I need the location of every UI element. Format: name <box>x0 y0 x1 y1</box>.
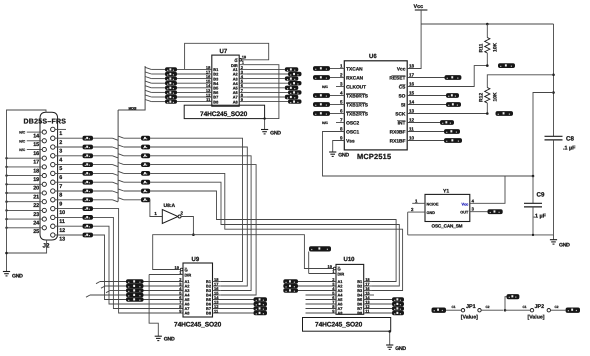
net label SI <box>446 102 461 107</box>
wire U10 B3 stub <box>364 290 372 292</box>
net label U9 A4 <box>126 293 144 298</box>
IC U6 body <box>344 61 407 150</box>
svg-text:[Value]: [Value] <box>528 315 545 321</box>
wire U6 pin 1 <box>330 68 344 70</box>
J2 pin 18 <box>42 165 46 169</box>
wire C9 branch <box>533 93 554 177</box>
svg-text:SI: SI <box>401 103 406 109</box>
wire JP junction riser <box>505 297 507 311</box>
wire J2 pin 7 net <box>55 181 83 183</box>
svg-text:15: 15 <box>409 91 415 96</box>
svg-text:Vcc: Vcc <box>397 67 406 73</box>
svg-text:4: 4 <box>59 157 62 163</box>
net label U7 A5 <box>285 86 299 90</box>
svg-text:GND: GND <box>427 211 436 215</box>
net label U7 A2 <box>288 72 302 76</box>
net label RESET r11 <box>498 63 515 68</box>
net label row 6 b <box>141 171 150 176</box>
wire U7 B5 row <box>145 86 151 88</box>
wire RX1BF pin10 <box>407 140 444 142</box>
svg-text:1: 1 <box>415 198 418 203</box>
net label U10 A3 <box>283 288 298 293</box>
wire U7 A5 row <box>239 87 247 89</box>
wire SI pin14 <box>407 104 446 106</box>
wire row11 down to U9 area <box>93 217 183 308</box>
net label row 9 <box>83 197 94 202</box>
svg-text:10K: 10K <box>493 92 499 102</box>
net label U10 B8 <box>392 311 404 316</box>
net label SO <box>446 93 459 98</box>
J2 pin 6 <box>51 171 55 175</box>
svg-text:TXB2RTS: TXB2RTS <box>346 112 369 118</box>
J2 pin 4 <box>51 154 55 158</box>
net label row 4 b <box>141 153 150 158</box>
wire J2 pin 13 net <box>55 234 83 236</box>
J2 pin 17 <box>42 156 46 160</box>
node Vcc R11 <box>486 23 489 26</box>
net label SCK r12 <box>496 111 514 116</box>
net label U7 A6 <box>288 90 302 94</box>
svg-text:14: 14 <box>33 134 39 140</box>
svg-text:2: 2 <box>411 207 414 212</box>
wire U7 DIR loop <box>239 65 279 119</box>
wire U7 B6 row <box>145 90 151 92</box>
svg-text:15: 15 <box>33 142 39 148</box>
wire U7 box to GND <box>264 119 266 130</box>
net label U6 pin 1 <box>313 66 330 71</box>
net label U6 pin 5 <box>313 102 330 107</box>
wire J2 pin 18 to ground bus <box>7 166 43 168</box>
node JP junction <box>504 309 507 312</box>
wire U10 B5 to net label <box>364 299 392 301</box>
svg-text:18: 18 <box>33 168 39 174</box>
wire row4 down to U9 B <box>150 156 251 291</box>
svg-text:OSC_CAN_SM: OSC_CAN_SM <box>432 223 463 228</box>
net label U7 B7 <box>165 95 177 99</box>
svg-text:2: 2 <box>181 211 184 216</box>
net label row 13 <box>83 233 94 238</box>
svg-text:10: 10 <box>59 210 65 216</box>
wire U7 A3 row <box>239 78 247 80</box>
wire U6 pin 5 <box>330 104 344 106</box>
svg-text:TXB0RTS: TXB0RTS <box>346 94 369 100</box>
net label row 6 <box>83 171 94 176</box>
wire J2 pin 10 net <box>55 208 83 210</box>
net label U9 A5 <box>126 297 144 302</box>
wire U6 pin 3 stub <box>336 86 344 88</box>
svg-text:10: 10 <box>409 136 415 141</box>
svg-text:2: 2 <box>59 140 62 146</box>
wire U10 B4 stub <box>364 294 374 296</box>
wire J2 pin 1 net <box>55 128 66 130</box>
wire U10 B8 to net label <box>364 312 392 314</box>
svg-text:N/C: N/C <box>19 148 25 152</box>
svg-text:A8: A8 <box>338 311 344 316</box>
svg-text:21: 21 <box>33 194 39 200</box>
svg-text:RX0BF: RX0BF <box>390 130 406 136</box>
wire OSC1 net <box>323 132 534 177</box>
JP2 pin 1 <box>530 309 533 312</box>
net label Y1 OUT <box>488 209 503 214</box>
wire row12 down to U9 area <box>93 226 183 304</box>
U7 type label box <box>184 105 264 118</box>
wire J2 pin 3 net <box>55 146 83 148</box>
net label U9 B6 <box>254 302 268 307</box>
svg-text:N/C: N/C <box>19 131 25 135</box>
wire U6 pin 7 stub <box>336 122 344 124</box>
net label row 3 b <box>141 145 150 150</box>
ground U10 <box>386 344 393 346</box>
wire U10 A6 <box>306 303 337 305</box>
wire U9 B2 stub <box>213 285 221 287</box>
svg-text:Vcc: Vcc <box>462 202 469 206</box>
svg-text:4: 4 <box>340 91 343 96</box>
wire J2 pin 23 to ground bus <box>7 209 43 211</box>
net label row 8 <box>83 189 94 194</box>
net label U7 B5 <box>165 86 177 90</box>
svg-text:13: 13 <box>409 109 415 114</box>
wire row5 via bus to U9 <box>93 164 113 166</box>
node OSC1 C9 junction <box>532 175 535 178</box>
net label U9 A2 <box>126 284 144 289</box>
wire row13 down to U9 area <box>93 235 126 300</box>
net label U9 B7 <box>254 306 268 311</box>
svg-text:R11: R11 <box>479 43 485 52</box>
svg-text:.1 µF: .1 µF <box>563 146 576 152</box>
wire U10 box to GND <box>389 331 391 345</box>
net label U7 B8 <box>165 99 177 103</box>
net label U9 A3 <box>126 288 144 293</box>
svg-text:TXB1RTS: TXB1RTS <box>346 103 369 109</box>
node C9 branch tap <box>552 91 555 94</box>
svg-text:8: 8 <box>59 193 62 199</box>
J2 pin 10 <box>51 206 55 210</box>
svg-text:1: 1 <box>242 60 245 65</box>
svg-text:JP2: JP2 <box>535 304 545 310</box>
svg-text:9: 9 <box>59 201 62 207</box>
svg-text:23: 23 <box>33 212 39 218</box>
wire U9 DIR <box>149 274 183 276</box>
svg-text:16: 16 <box>409 82 415 87</box>
U8A output bubble <box>178 215 181 218</box>
svg-text:DIR: DIR <box>185 273 192 278</box>
IC U7 body <box>212 55 239 106</box>
wire J2 pin 25 to ground bus <box>7 227 43 229</box>
wire U6 pin 4 <box>330 95 344 97</box>
net label RESET <box>445 75 462 80</box>
svg-text:RESET: RESET <box>389 76 405 82</box>
svg-text:16: 16 <box>33 151 39 157</box>
svg-text:19: 19 <box>33 177 39 183</box>
wire row10 down to U9 area <box>93 209 183 313</box>
svg-text:DIR: DIR <box>338 272 345 277</box>
net label row 3 <box>83 145 94 150</box>
svg-text:B8: B8 <box>213 99 219 104</box>
svg-text:12: 12 <box>59 228 65 234</box>
wire U9 B6 to net label <box>213 303 254 305</box>
net label JP1 left <box>432 308 447 313</box>
node R12 tap <box>552 74 555 77</box>
svg-text:22: 22 <box>33 203 39 209</box>
wire U6 pin 6 <box>330 113 344 115</box>
JP1 pin 1 <box>461 309 464 312</box>
wire J2 pin 20 to ground bus <box>7 183 43 185</box>
net label JP mid <box>507 294 520 299</box>
svg-text:14: 14 <box>409 100 415 105</box>
node bus gnd junction <box>5 252 8 255</box>
wire Y1 Vcc to rail <box>470 176 505 203</box>
svg-text:.1 µF: .1 µF <box>534 214 547 220</box>
node C9 gnd <box>532 234 534 236</box>
net label U7 B6 <box>165 90 177 94</box>
svg-text:RXCAN: RXCAN <box>346 76 364 82</box>
J2 pin 20 <box>42 182 46 186</box>
J2 pin 1 <box>51 127 55 131</box>
wire U7 B1 row <box>145 67 151 69</box>
J2 pin 9 <box>51 198 55 202</box>
resistor R12 10K <box>485 88 490 104</box>
svg-text:MCP2515: MCP2515 <box>357 152 391 161</box>
wire row3 down to U9 B <box>150 147 247 286</box>
wire U10 A4 <box>306 294 337 296</box>
wire SO pin15 <box>407 95 446 97</box>
J2 pin 2 <box>51 136 55 140</box>
svg-text:SCK: SCK <box>395 112 406 118</box>
J2 pin 22 <box>42 200 46 204</box>
wire row8 via bus to U10 <box>93 190 113 192</box>
wire row4 via bus to U9 <box>93 155 113 157</box>
net label U10 DIR <box>309 246 331 251</box>
svg-text:C9: C9 <box>537 192 545 199</box>
wire U8A output <box>181 217 193 235</box>
svg-text:U8:A: U8:A <box>164 203 176 209</box>
net label row 8 b <box>141 189 150 194</box>
svg-text:N/C: N/C <box>322 121 328 125</box>
svg-text:CS: CS <box>399 85 406 91</box>
net label U7 A1 <box>285 67 299 71</box>
svg-text:SO: SO <box>398 94 405 100</box>
net label U6 pin 6 <box>313 111 330 116</box>
J2 pin 19 <box>42 174 46 178</box>
svg-text:4: 4 <box>472 198 475 203</box>
svg-text:C1: C1 <box>522 305 526 309</box>
jumper JP2 <box>505 309 530 311</box>
net label row 12 <box>83 224 94 229</box>
wire U8A out to U10 G <box>193 235 333 269</box>
net label U10 B6 <box>392 302 404 307</box>
ground J2 <box>3 271 10 273</box>
wire U7 B7 row <box>145 95 151 97</box>
J2 pin 14 <box>42 130 46 134</box>
svg-text:18: 18 <box>409 64 415 69</box>
wire U10 B7 to net label <box>364 308 392 310</box>
resistor R11 10K <box>486 24 488 38</box>
wire U10 B6 to net label <box>364 303 392 305</box>
wire U7 B4 row <box>145 81 151 83</box>
J2 shell <box>40 112 58 240</box>
svg-text:U7: U7 <box>220 48 228 55</box>
wire J2 pin 6 net <box>55 172 83 174</box>
wire INT pin12 <box>407 122 440 124</box>
svg-text:A8: A8 <box>233 99 239 104</box>
svg-text:Vss: Vss <box>346 139 355 145</box>
net label U10 A2 <box>283 284 298 289</box>
ground U9 <box>155 335 162 337</box>
net label row 7 <box>83 180 94 185</box>
net label U10 B5 <box>392 297 404 302</box>
svg-text:C2: C2 <box>554 305 558 309</box>
wire U9 B8 to net label <box>213 312 254 314</box>
wire U9 B1 stub <box>213 281 221 283</box>
wire RX0BF pin11 <box>407 131 444 133</box>
svg-text:2: 2 <box>340 73 343 78</box>
wire U6 pin 2 <box>330 77 344 79</box>
wire U7 A4 row <box>239 82 247 84</box>
wire row6 via bus to U10 <box>93 172 113 174</box>
capacitor C8 .1uF <box>545 135 563 137</box>
wire J2 pin 24 to ground bus <box>7 218 43 220</box>
wire row9 to U8A <box>93 199 113 201</box>
svg-text:GND: GND <box>12 274 23 280</box>
wire U9 B7 to net label <box>213 308 254 310</box>
wire U10 A7 <box>306 308 337 310</box>
wire Vcc rail <box>421 23 553 25</box>
svg-text:6: 6 <box>59 175 62 181</box>
svg-text:3: 3 <box>472 207 475 212</box>
J2 pin 25 <box>42 226 46 230</box>
bus riser to U7 <box>117 110 119 202</box>
svg-text:3: 3 <box>340 82 343 87</box>
J2 pin 5 <box>51 162 55 166</box>
wire U10 DIR riser <box>308 252 310 274</box>
wire U7 G loop <box>185 43 269 69</box>
J2 pin 24 <box>42 217 46 221</box>
net label U6 pin 2 <box>313 75 330 80</box>
ground U7 <box>261 129 268 131</box>
net label row 10 <box>83 206 94 211</box>
svg-text:GND: GND <box>270 130 281 136</box>
wire U7 A2 row <box>239 73 247 75</box>
wire Y1 GND down <box>407 212 409 235</box>
net label U7 B3 <box>165 76 177 80</box>
wire U10 DIR <box>309 273 336 275</box>
svg-text:12: 12 <box>409 118 415 123</box>
svg-text:7: 7 <box>59 184 62 190</box>
J2 pin 23 <box>42 208 46 212</box>
svg-text:OUT: OUT <box>460 211 469 215</box>
svg-text:GND: GND <box>395 346 406 352</box>
J2 pin 8 <box>51 189 55 193</box>
node U10 gnd junction <box>388 330 391 333</box>
wire J2 pin 2 net <box>55 137 83 139</box>
svg-text:1: 1 <box>59 131 62 137</box>
J2 pin 7 <box>51 180 55 184</box>
node R11 bottom <box>486 64 489 67</box>
wire bus to GND <box>6 253 8 272</box>
wire J2 pin 17 to ground bus <box>7 157 43 159</box>
wire U9 DIR to GND <box>149 275 158 337</box>
svg-text:MOSI: MOSI <box>129 107 137 111</box>
svg-text:DB25S–FRS: DB25S–FRS <box>24 119 67 126</box>
net label row 2 b <box>141 136 150 141</box>
wire Vcc right leg <box>553 24 555 136</box>
wire U8A out to U9 G <box>153 235 194 270</box>
net label row 11 <box>83 215 94 220</box>
J2 pin 16 <box>42 147 46 151</box>
capacitor C9 .1uF <box>532 176 534 203</box>
svg-text:C2: C2 <box>485 305 489 309</box>
wire J2 pin 12 net <box>55 225 83 227</box>
net label row 9 b <box>141 197 150 202</box>
net label U7 B2 <box>165 72 177 76</box>
wire U7 B2 row <box>145 72 151 74</box>
net label RX0BF <box>444 129 460 134</box>
J2 pin 15 <box>42 139 46 143</box>
wire U6 Vcc pin18 <box>407 24 421 69</box>
svg-text:5: 5 <box>59 166 62 172</box>
svg-text:GND: GND <box>164 337 175 343</box>
wire row8 to U10 B <box>150 191 396 282</box>
Y1 body <box>425 194 470 221</box>
wire R12 to Vcc <box>487 75 553 88</box>
svg-text:17: 17 <box>33 160 39 166</box>
node U8A out junction <box>192 233 195 236</box>
net label row 5 <box>83 162 94 167</box>
wire RESET pin17 <box>407 77 444 79</box>
wire J2 pin 19 to ground bus <box>7 175 43 177</box>
net label RX1BF <box>444 138 462 143</box>
wire J2 pin 22 to ground bus <box>7 201 43 203</box>
svg-text:74HC245_SO20: 74HC245_SO20 <box>315 322 363 329</box>
svg-text:74HC245_SO20: 74HC245_SO20 <box>174 321 222 328</box>
svg-text:OSC2: OSC2 <box>346 121 359 127</box>
wire SCK pin13 <box>407 113 487 115</box>
U10 pin G 19 <box>333 267 336 270</box>
wire U7 A7 row <box>239 96 247 98</box>
J2 pin 21 <box>42 191 46 195</box>
J2 pin 3 <box>51 145 55 149</box>
JP1 pin 2 <box>478 309 481 312</box>
wire U9 B5 to net label <box>213 299 254 301</box>
net label JP2 right <box>566 308 580 313</box>
svg-text:R12: R12 <box>479 93 485 102</box>
wire J2 pin 5 net <box>55 164 83 166</box>
svg-text:JP1: JP1 <box>466 304 476 310</box>
svg-text:10K: 10K <box>493 42 499 52</box>
net label row 5 b <box>141 162 150 167</box>
ground right rail <box>550 239 557 241</box>
wire J2 pin 21 to ground bus <box>7 192 43 194</box>
net label U7 A3 <box>285 76 299 80</box>
svg-text:24: 24 <box>33 221 39 227</box>
svg-text:OSC1: OSC1 <box>346 130 359 136</box>
wire J2 pin 9 net <box>55 199 83 201</box>
wire Vss to GND <box>333 141 345 153</box>
wire J2 pin 11 net <box>55 216 83 218</box>
wire CS pin16 <box>407 66 487 87</box>
svg-text:A8: A8 <box>185 311 191 316</box>
net label U7 A7 <box>285 95 299 99</box>
svg-text:U9: U9 <box>192 256 200 263</box>
net label U9 B5 <box>254 297 268 302</box>
svg-text:25: 25 <box>33 229 39 235</box>
J2 pin 13 <box>51 233 55 237</box>
net label U7 A4 <box>288 81 302 85</box>
net label U10 B7 <box>392 306 404 311</box>
svg-text:C8: C8 <box>566 136 574 143</box>
svg-text:5: 5 <box>340 100 343 105</box>
svg-text:1: 1 <box>340 64 343 69</box>
